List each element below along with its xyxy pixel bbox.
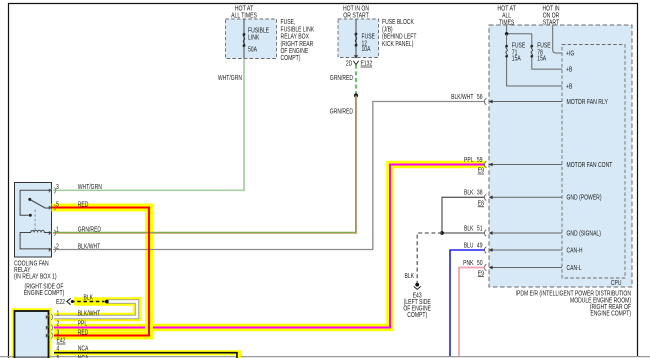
svg-text:50: 50 xyxy=(477,260,483,267)
wire BLK dashed to ground E43 xyxy=(417,233,442,283)
E42 pin 1 connector symbol xyxy=(46,315,49,318)
cooling fan relay K1 box xyxy=(15,183,52,258)
svg-text:FUSE,: FUSE, xyxy=(281,19,296,26)
wire BLK from pin 51 to junction xyxy=(442,232,485,234)
fuse 12 10A symbol xyxy=(355,33,358,47)
splice dot at E22 wire xyxy=(105,300,109,304)
IPDM CPU inner box xyxy=(562,45,625,279)
wire BLK/WHT from relay pin 2 to IPDM pin 56 xyxy=(53,102,485,250)
wire inside fuse block box xyxy=(355,19,357,57)
relay pin 3 connector symbol xyxy=(49,189,52,192)
svg-text:CAN-H: CAN-H xyxy=(567,247,583,254)
highlight of RED trace xyxy=(52,208,150,336)
svg-text:2: 2 xyxy=(57,321,60,328)
wire BLK from pin 38 to junction xyxy=(442,197,485,233)
svg-text:2: 2 xyxy=(56,243,59,250)
svg-text:WHT/GRN: WHT/GRN xyxy=(218,75,242,82)
svg-text:15A: 15A xyxy=(537,56,546,63)
svg-text:BLK/WHT: BLK/WHT xyxy=(78,243,101,250)
svg-text:E9: E9 xyxy=(478,168,484,175)
IPDM internal line to CAN-H xyxy=(492,249,563,251)
wire inside fusible link box xyxy=(243,19,245,59)
junction dot at fuse feed xyxy=(505,32,508,35)
fusible link 50A fuse symbol xyxy=(243,33,246,47)
svg-text:ON OR: ON OR xyxy=(543,12,560,19)
svg-text:3: 3 xyxy=(56,184,59,191)
relay coil and pins 1 2 xyxy=(20,230,51,249)
svg-text:BLK/WHT: BLK/WHT xyxy=(451,94,474,101)
wire GRN/RED from splice to relay pin 1 xyxy=(53,96,356,233)
fuse block J/B box (dashed blue box) xyxy=(338,19,379,58)
bottom component box border (cut off) xyxy=(54,353,237,358)
svg-text:HOT IN ON: HOT IN ON xyxy=(343,5,369,12)
relay switch blade to pin 5 xyxy=(28,198,31,201)
svg-text:NCA: NCA xyxy=(78,346,89,353)
svg-text:RED: RED xyxy=(78,201,89,208)
relay pin 2 connector symbol xyxy=(49,248,52,251)
E42 pin 3 connector symbol xyxy=(46,334,49,337)
svg-text:START: START xyxy=(543,19,560,26)
svg-text:FUSIBLE: FUSIBLE xyxy=(248,28,269,35)
svg-text:HOT AT: HOT AT xyxy=(497,5,516,12)
svg-text:GRN/RED: GRN/RED xyxy=(78,227,101,234)
svg-text:BLK: BLK xyxy=(405,273,415,280)
connector E42 box fill xyxy=(15,311,49,358)
svg-text:2D: 2D xyxy=(346,61,352,68)
svg-text:51: 51 xyxy=(477,225,483,232)
relay actuation dashed link xyxy=(34,210,36,231)
svg-text:ALL: ALL xyxy=(502,12,511,19)
svg-text:5: 5 xyxy=(56,201,59,208)
wire GRN/RED dashed inside harness xyxy=(355,65,357,96)
connector E42 box border xyxy=(15,311,49,358)
svg-text:COMPT): COMPT) xyxy=(407,312,427,319)
wire BLK dashed to ground E22 xyxy=(71,301,105,303)
svg-text:E132: E132 xyxy=(361,61,373,68)
wire RED from relay pin 5 to E42 pin 3 xyxy=(52,208,150,336)
wire PPL from IPDM pin 59 to E42 pin 2 xyxy=(54,165,485,328)
svg-text:RELAY BOX: RELAY BOX xyxy=(281,34,310,41)
svg-text:BLK/WHT: BLK/WHT xyxy=(78,310,101,317)
svg-text:38: 38 xyxy=(477,190,483,197)
connector E42 box highlight glow xyxy=(15,311,49,358)
svg-text:BLK: BLK xyxy=(464,225,474,232)
svg-text:4: 4 xyxy=(57,346,60,353)
svg-text:49: 49 xyxy=(477,242,483,249)
IPDM feed wire from HOT AT ALL TIMES xyxy=(507,25,532,34)
svg-text:CPU: CPU xyxy=(611,280,622,287)
svg-text:GRN/RED: GRN/RED xyxy=(330,109,353,116)
svg-text:E8: E8 xyxy=(478,200,484,207)
relay pin 1 connector symbol xyxy=(49,231,52,234)
svg-text:HOT IN: HOT IN xyxy=(542,5,559,12)
highlight of BLK/WHT ground trace E22 xyxy=(54,302,137,318)
IPDM internal line to MOTOR FAN CONT xyxy=(492,164,563,166)
svg-text:(IN RELAY BOX 1): (IN RELAY BOX 1) xyxy=(14,273,57,280)
svg-text:HOT AT: HOT AT xyxy=(235,5,254,12)
IPDM internal line to MOTOR FAN RLY xyxy=(492,101,563,103)
highlight of bottom component box edge xyxy=(54,353,239,358)
svg-text:E42: E42 xyxy=(57,338,66,345)
svg-text:FUSE BLOCK: FUSE BLOCK xyxy=(382,19,414,26)
svg-text:1: 1 xyxy=(56,227,59,234)
IPDM internal line to CAN-L xyxy=(492,267,563,269)
ground E43 symbol xyxy=(415,283,419,287)
IPDM E/R outer box xyxy=(489,25,632,287)
svg-text:(J/B): (J/B) xyxy=(382,26,393,33)
svg-text:PPL: PPL xyxy=(78,321,88,328)
svg-text:+B: +B xyxy=(566,83,573,90)
IPDM feed wire from HOT IN ON OR START to +IG xyxy=(553,25,562,53)
svg-text:RED: RED xyxy=(78,329,89,336)
svg-text:GND (POWER): GND (POWER) xyxy=(567,195,602,202)
E42 pin 2 connector symbol xyxy=(46,326,49,329)
svg-text:+IG: +IG xyxy=(566,50,574,57)
svg-text:15A: 15A xyxy=(512,56,521,63)
svg-text:OF ENGINE: OF ENGINE xyxy=(281,48,309,55)
svg-text:BLU: BLU xyxy=(464,242,474,249)
svg-text:50A: 50A xyxy=(248,47,257,54)
svg-text:MOTOR FAN RLY: MOTOR FAN RLY xyxy=(567,99,609,106)
svg-text:PNK: PNK xyxy=(463,260,474,267)
IPDM internal line to GND (POWER) xyxy=(492,196,563,198)
svg-text:56: 56 xyxy=(477,94,483,101)
svg-text:FUSIBLE LINK: FUSIBLE LINK xyxy=(281,26,315,33)
svg-text:MOTOR FAN CONT: MOTOR FAN CONT xyxy=(567,162,613,169)
svg-text:ENGINE COMPT): ENGINE COMPT) xyxy=(24,290,65,297)
svg-text:BLK: BLK xyxy=(464,190,474,197)
splice dot on GRN/RED wire xyxy=(354,93,358,97)
wire PNK from pin 50 xyxy=(459,268,485,357)
svg-text:ENGINE COMPT): ENGINE COMPT) xyxy=(590,311,631,318)
connector E132 exit arrow xyxy=(354,55,358,58)
highlight of PPL trace xyxy=(54,165,485,328)
svg-text:COMPT): COMPT) xyxy=(281,55,301,62)
svg-text:GND (SIGNAL): GND (SIGNAL) xyxy=(567,230,601,237)
svg-text:1: 1 xyxy=(57,310,60,317)
wire WHT/GRN from fusible link to relay pin 3 xyxy=(53,59,244,191)
svg-text:CAN-L: CAN-L xyxy=(567,265,582,272)
ground E22 symbol xyxy=(67,298,71,304)
svg-text:BLK: BLK xyxy=(84,295,94,302)
svg-text:+B: +B xyxy=(566,67,573,74)
fusible link relay box (dashed blue box) xyxy=(226,19,277,59)
svg-text:(RIGHT REAR: (RIGHT REAR xyxy=(281,41,314,48)
svg-text:ALL TIMES: ALL TIMES xyxy=(231,12,257,19)
svg-text:59: 59 xyxy=(477,157,483,164)
svg-text:LINK: LINK xyxy=(248,35,259,42)
svg-text:E9: E9 xyxy=(478,270,484,277)
junction dot of ground wires xyxy=(440,231,444,235)
svg-text:WHT/GRN: WHT/GRN xyxy=(78,184,102,191)
svg-text:E22: E22 xyxy=(56,299,65,306)
svg-text:OR START: OR START xyxy=(343,12,369,19)
svg-text:GRN/RED: GRN/RED xyxy=(330,75,353,82)
IPDM internal line to GND (SIGNAL) xyxy=(492,232,563,234)
fuse 71 15A symbol and leads xyxy=(506,34,562,86)
relay pin 5 connector symbol xyxy=(49,206,52,209)
wire BLK/WHT from E22 splice to E42 pin 1 xyxy=(54,302,137,318)
bottom gray separator line xyxy=(0,356,650,358)
svg-text:10A: 10A xyxy=(362,46,371,53)
svg-text:KICK PANEL): KICK PANEL) xyxy=(382,41,413,48)
wire BLU from pin 49 xyxy=(450,250,485,356)
svg-text:(BEHIND LEFT: (BEHIND LEFT xyxy=(382,34,417,41)
fuse 78 15A symbol and leads xyxy=(531,34,562,69)
svg-text:PPL: PPL xyxy=(464,157,474,164)
relay switch contact from pin 3 xyxy=(20,190,51,215)
svg-text:TIMES: TIMES xyxy=(499,19,515,26)
svg-text:3: 3 xyxy=(57,329,60,336)
